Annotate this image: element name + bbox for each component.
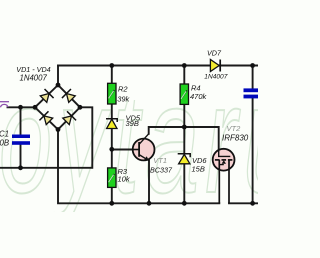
svg-text:BC337: BC337: [150, 166, 173, 175]
diode VD4 (bridge bottom-right): [62, 111, 77, 126]
diode VD7: [210, 60, 220, 72]
svg-text:39k: 39k: [117, 95, 130, 104]
wire node B to VD6: [183, 127, 185, 153]
transistor VT2 IRF830: [213, 149, 235, 204]
svg-text:1N4007: 1N4007: [204, 73, 227, 80]
node right column ground: [250, 201, 255, 206]
node C1 bottom: [18, 165, 23, 170]
wire C1 top lead: [20, 107, 22, 134]
node R3 ground: [109, 201, 114, 206]
wire VD5 to node A: [111, 129, 113, 150]
diode VD1 (bridge top-left): [39, 89, 54, 104]
node C1 top: [18, 105, 23, 110]
wire R2 column top: [111, 66, 113, 84]
svg-text:VT1: VT1: [153, 156, 167, 165]
diode VD2 (bridge top-right): [62, 89, 77, 104]
zener VD5: [106, 119, 117, 129]
node bridge left: [33, 105, 38, 110]
wire ground rail right part: [229, 202, 258, 204]
svg-text:39B: 39B: [126, 119, 139, 128]
wire node A to R3: [111, 149, 113, 168]
wire R3 to ground rail: [111, 187, 113, 203]
wire VD6 to ground rail: [183, 164, 185, 204]
diode VD3 (bridge bottom-left): [39, 111, 54, 126]
capacitor C2: [244, 88, 259, 98]
wire AC input left: [8, 106, 36, 108]
svg-text:1N4007: 1N4007: [20, 74, 48, 83]
resistor R4: [180, 84, 188, 104]
wire right column bottom: [252, 99, 254, 204]
svg-text:VT2: VT2: [227, 124, 242, 133]
wire top rail to bridge top: [57, 66, 59, 86]
svg-text:R2: R2: [118, 85, 128, 94]
wire VT1 collector up: [149, 127, 219, 150]
node A R2/VD5/R3: [109, 147, 114, 152]
wire top rail: [58, 65, 258, 67]
transistor VT1 BC337: [133, 134, 155, 161]
svg-text:10k: 10k: [118, 175, 131, 184]
node bridge right: [78, 105, 83, 110]
wire bridge bottom to ground rail: [58, 130, 219, 204]
resistor R3: [108, 168, 116, 188]
svg-text:VD7: VD7: [207, 49, 222, 58]
wire right column top: [252, 66, 254, 89]
node right column top rail: [250, 63, 255, 68]
node bridge top: [56, 83, 61, 88]
svg-text:0B: 0B: [0, 138, 9, 147]
zener VD6: [178, 154, 191, 164]
resistor R2: [108, 83, 116, 104]
svg-text:IRF830: IRF830: [222, 134, 249, 143]
node dots: [18, 63, 255, 206]
wire R4 column top: [183, 66, 185, 85]
wire VT1 emitter down: [148, 161, 150, 204]
transformer winding: [0, 102, 9, 108]
node B R4/VD6: [182, 125, 187, 130]
wire node A to VT1 base: [112, 149, 133, 151]
wire R4 to node B: [183, 104, 185, 127]
svg-text:15B: 15B: [192, 165, 205, 174]
wire C1 bottom lead: [20, 145, 22, 168]
wire bridge diamond: [35, 85, 80, 130]
node bridge bottom: [56, 127, 61, 132]
node R4 top rail: [182, 63, 187, 68]
node R2 top rail: [109, 63, 114, 68]
capacitor C1: [12, 135, 30, 145]
wire R2 to VD5: [111, 104, 113, 119]
svg-text:470k: 470k: [190, 92, 208, 101]
node VT1 emitter ground: [147, 201, 152, 206]
node VD6 ground: [182, 201, 187, 206]
wire right AC node to lower left rail: [0, 107, 92, 168]
svg-text:C1: C1: [0, 129, 9, 138]
